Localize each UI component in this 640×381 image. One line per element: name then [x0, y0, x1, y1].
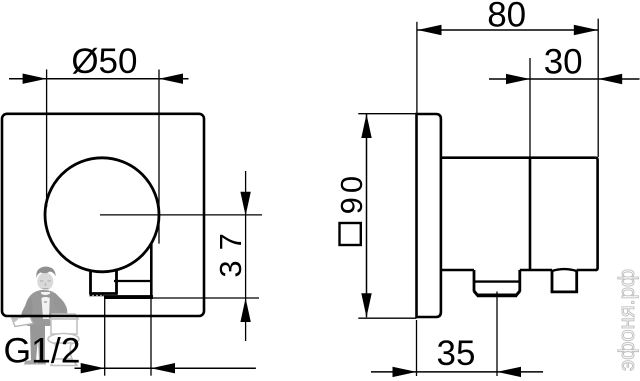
watermark plumber figure — [11, 267, 67, 365]
toilet pedestal — [54, 343, 72, 359]
dimension 90: arrows — [361, 114, 371, 138]
toilet tank — [51, 319, 77, 334]
svg-text:90: 90 — [334, 172, 369, 214]
svg-text:Ø50: Ø50 — [71, 42, 137, 81]
dimension G1/2: dimension line — [75, 367, 256, 369]
wall plate side — [417, 114, 441, 317]
holder front: bottom bar — [104, 295, 153, 299]
dimension 30: arrows — [506, 74, 530, 84]
toilet base — [51, 359, 77, 366]
dimension 37: line — [245, 171, 247, 341]
hair — [36, 267, 55, 279]
thread marks G1/2 — [89, 294, 104, 297]
dimension Ø50: dimension line — [9, 78, 189, 80]
toilet lid — [50, 314, 78, 319]
bow tie — [38, 293, 53, 300]
dimension 90: extension lines — [358, 113, 416, 115]
outlet box front — [89, 269, 118, 293]
dimension Ø50: arrows — [23, 74, 47, 84]
holder front: right edge — [150, 244, 153, 296]
dimension 30: dimension line — [489, 78, 640, 80]
right arm on toilet — [53, 294, 67, 314]
dimension Ø50: extension lines — [46, 70, 48, 208]
jacket torso — [24, 290, 62, 326]
dimension G1/2: extension lines — [104, 299, 106, 376]
escutcheon circle Ø50 — [45, 158, 159, 272]
dimension 37: bottom extension line — [151, 297, 259, 299]
face — [37, 273, 53, 291]
svg-text:30: 30 — [544, 43, 583, 82]
shoes — [24, 360, 37, 365]
watermark toilet — [48, 314, 79, 366]
svg-text:G1/2: G1/2 — [4, 330, 81, 370]
body divider line — [529, 158, 532, 270]
hands and wrench — [21, 317, 30, 324]
holder hook side — [551, 269, 579, 292]
dimension 80: extension lines — [416, 22, 418, 113]
svg-text:35: 35 — [437, 334, 476, 373]
svg-text:37: 37 — [213, 223, 248, 277]
dimension 35: dimension line — [371, 371, 543, 373]
front plate square — [2, 114, 204, 316]
holder front: top edge — [114, 280, 151, 282]
toilet rim — [48, 334, 79, 345]
dimension 80: arrows — [418, 25, 442, 35]
dimension 35: extension lines — [416, 320, 418, 376]
valve body side — [441, 158, 598, 270]
dimension 80: dimension line — [417, 29, 598, 31]
left arm to wrench — [21, 297, 33, 323]
dimension 30: extension line above body — [529, 58, 531, 158]
dimension 90: square symbol — [340, 223, 361, 245]
svg-text:80: 80 — [487, 0, 526, 35]
centre line of circle — [100, 214, 262, 216]
dimension 90: dimension line — [366, 114, 368, 317]
dimension G1/2: arrows — [81, 363, 105, 373]
svg-text:эфоня.рф: эфоня.рф — [614, 269, 639, 371]
dimension 37: arrows — [240, 192, 250, 216]
dimension 35: arrows — [393, 367, 417, 377]
shirt — [41, 292, 50, 319]
outlet spout side — [474, 270, 520, 295]
trousers / legs — [30, 325, 45, 361]
